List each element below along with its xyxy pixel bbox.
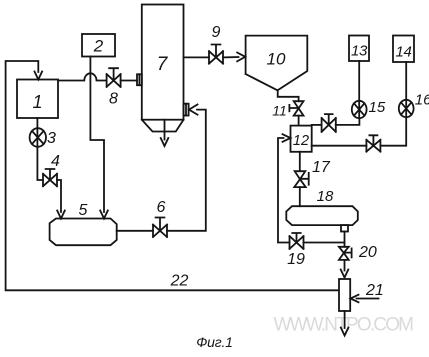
svg-text:11: 11 <box>272 103 287 119</box>
wire hopper10 outlet to valve11 <box>278 90 299 101</box>
svg-text:17: 17 <box>312 159 331 176</box>
box 14 <box>393 36 414 63</box>
svg-text:21: 21 <box>365 282 384 299</box>
svg-text:5: 5 <box>79 202 88 219</box>
svg-text:3: 3 <box>47 130 56 147</box>
wire valve20 down to filter21 <box>344 260 346 271</box>
valve (unlabelled, line to 15) <box>322 114 336 132</box>
valve 4 <box>43 169 57 186</box>
box 2 <box>82 34 115 57</box>
arrow into filter 21 from right <box>357 298 379 300</box>
wire nozzle to valve20 <box>344 232 346 247</box>
wire valve9 to hopper10 with arrow <box>223 56 239 58</box>
pump 16 (circle with X) <box>399 100 414 117</box>
valve 19 <box>290 233 304 249</box>
svg-text:10: 10 <box>267 50 286 69</box>
tank 7 right nozzle <box>184 104 189 116</box>
tank 1 <box>17 80 58 119</box>
wire box2 down to vessel 5 <box>90 57 104 213</box>
pump 15 (circle with X) <box>352 101 367 118</box>
wire box12 bottom to valve17 <box>299 152 301 171</box>
svg-text:22: 22 <box>170 273 189 290</box>
tank 7 left nozzle <box>137 74 142 85</box>
svg-text:19: 19 <box>287 251 305 268</box>
svg-text:Фиг.1: Фиг.1 <box>196 334 233 350</box>
valve 20 <box>339 247 352 260</box>
svg-text:8: 8 <box>109 91 118 108</box>
filter 21 <box>339 279 350 311</box>
svg-text:13: 13 <box>351 43 368 60</box>
valve 17 <box>294 171 308 187</box>
wire box12 right to pump16 <box>312 145 367 147</box>
svg-text:20: 20 <box>358 244 377 261</box>
wire box12 top to pump15 <box>312 124 322 126</box>
wire pump15 to box13 <box>358 61 360 101</box>
pump 3 (circle with X) <box>30 128 46 147</box>
wire pump16 to box14 <box>405 62 407 100</box>
valve 11 <box>289 101 303 115</box>
arrow into vessel 5 (left inlet) <box>57 211 65 219</box>
wire tank1 to valve8 with crossover hump <box>58 73 107 80</box>
svg-text:7: 7 <box>157 54 169 75</box>
wire valve8 to tank7 left nozzle <box>121 80 137 82</box>
hopper 10 <box>246 36 308 91</box>
tank 7 (tall column) <box>142 5 184 120</box>
svg-text:14: 14 <box>396 44 412 61</box>
wire vessel5 to valve6 <box>117 230 153 232</box>
wire valve11 to box12 <box>298 116 300 126</box>
valve 9 <box>209 45 223 64</box>
wire valve4 to vessel 5 <box>57 180 61 212</box>
valve (unlabelled, line to 16) <box>366 135 380 151</box>
svg-text:9: 9 <box>212 24 221 41</box>
tank 7 bottom outlet arrow <box>164 120 166 140</box>
svg-text:4: 4 <box>51 153 60 170</box>
valve 8 <box>107 68 121 87</box>
svg-text:18: 18 <box>317 188 334 205</box>
arrow into vessel 5 (right inlet) <box>100 211 108 219</box>
arrow into tank7 right nozzle <box>189 105 198 115</box>
wire valve17 to vessel18 <box>299 187 301 206</box>
svg-text:6: 6 <box>157 199 166 216</box>
vessel 5 (horizontal drum) <box>50 219 117 246</box>
valve 19 branch wire <box>304 242 345 244</box>
box 12 <box>291 126 312 152</box>
wire filter21 bottom outlet arrow <box>344 311 346 328</box>
valve 6 <box>153 218 167 238</box>
svg-text:2: 2 <box>93 37 104 56</box>
wire tank1 bottom to pump3 to valve4 <box>37 118 43 180</box>
svg-text:1: 1 <box>32 92 42 112</box>
wire 22 (long bottom return line) <box>6 61 339 290</box>
wire tank7 to valve9 <box>184 56 210 58</box>
svg-text:12: 12 <box>293 133 309 149</box>
wire valve19 up to box12 with arrow <box>278 138 290 243</box>
svg-text:16: 16 <box>415 92 429 109</box>
vessel 18 (horizontal drum) <box>286 206 358 225</box>
wire valve6 up to tank7 right nozzle <box>167 110 206 231</box>
tank 7 cone bottom <box>142 120 184 132</box>
vessel 18 bottom nozzle <box>341 225 348 231</box>
box 13 <box>349 36 369 62</box>
arrow into tank 1 top <box>35 72 43 80</box>
svg-text:15: 15 <box>369 99 386 116</box>
